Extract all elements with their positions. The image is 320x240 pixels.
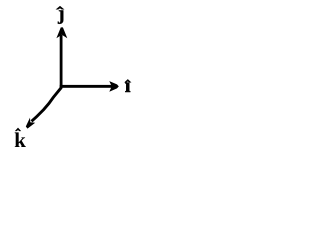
label k-hat: letter k (15, 132, 26, 147)
wire: j-axis shaft (60, 35, 63, 88)
label i-hat: dotless i (125, 83, 130, 92)
label j-hat: dotless j (58, 10, 63, 23)
label k-hat: circumflex (16, 128, 21, 131)
arrowhead j (56, 27, 67, 38)
arrowhead i (109, 81, 119, 92)
label j-hat: circumflex (56, 6, 63, 9)
label i-hat: circumflex (125, 80, 131, 83)
axis i (horizontal, right) (60, 81, 119, 92)
arrowhead k (26, 118, 35, 129)
axis j (vertical, up) (56, 27, 67, 88)
wire: i-axis shaft (60, 85, 112, 88)
axis k (diagonal, down-left) (26, 87, 62, 128)
wire: k-axis shaft (32, 87, 62, 121)
